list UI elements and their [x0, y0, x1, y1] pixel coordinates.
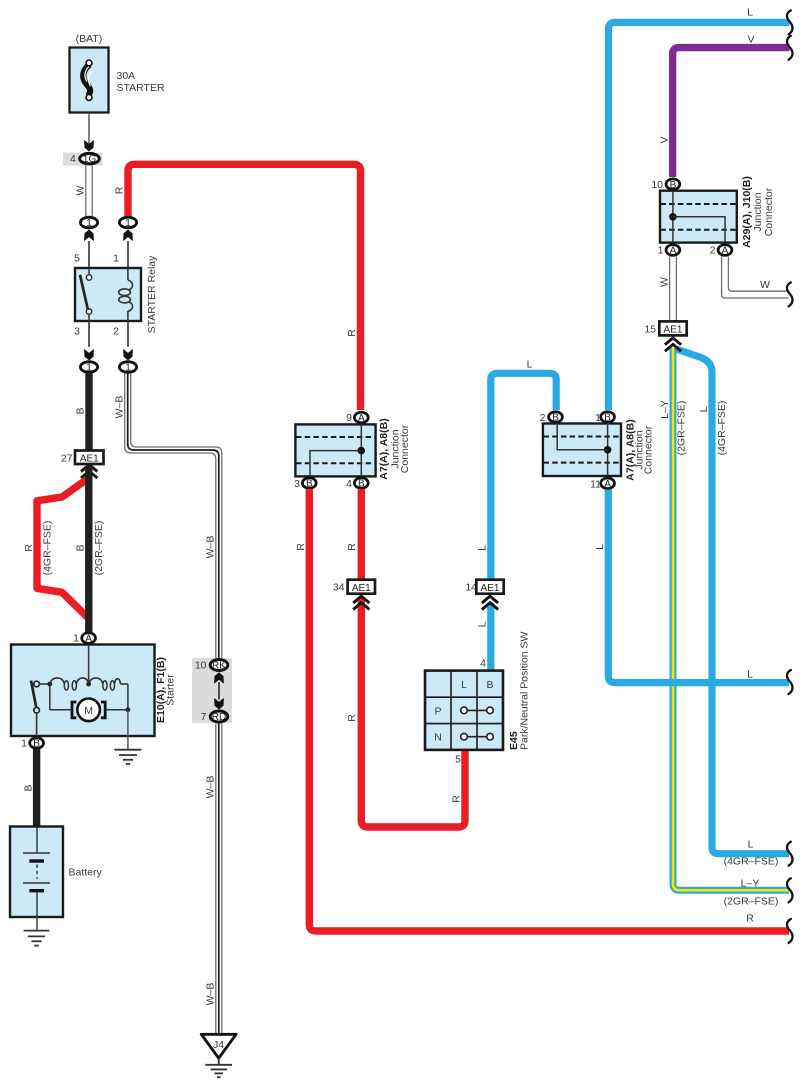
svg-text:2: 2 [540, 412, 546, 424]
starter E10(A), F1(B) [11, 645, 177, 739]
wire R (4GR-FSE) bypass [23, 478, 89, 619]
svg-text:B: B [552, 413, 559, 424]
wire W connector 1G to relay pin 5 [75, 166, 93, 217]
ground J4 [201, 1034, 236, 1077]
wire W junction 1A to AE1 15 [659, 257, 677, 322]
svg-text:AE1: AE1 [80, 454, 99, 465]
node 1 B (starter) [21, 738, 43, 750]
ground (battery) [24, 931, 50, 946]
svg-text:AE1: AE1 [481, 583, 500, 594]
svg-text:L: L [477, 545, 489, 551]
svg-text:Connector: Connector [763, 187, 775, 236]
svg-text:Connector: Connector [399, 424, 411, 473]
svg-text:(4GR–FSE): (4GR–FSE) [724, 856, 779, 868]
svg-text:A: A [722, 246, 729, 257]
wire B starter to battery [22, 749, 36, 827]
continuation squiggle L mid [787, 670, 793, 694]
battery [10, 827, 103, 931]
junction connector A7(A), A8(B) left [294, 412, 411, 490]
svg-text:R: R [346, 329, 358, 337]
svg-text:N: N [434, 732, 442, 744]
svg-text:L–Y: L–Y [741, 878, 760, 890]
svg-text:10: 10 [195, 660, 207, 672]
switch E45 Park/Neutral Position SW [425, 631, 531, 765]
svg-text:B: B [604, 413, 611, 424]
svg-text:R: R [346, 543, 358, 551]
svg-text:(2GR–FSE): (2GR–FSE) [93, 521, 105, 576]
svg-text:STARTER: STARTER [117, 82, 165, 94]
connector RK/RD [192, 658, 232, 723]
wire L AE1 14 up to junction A7 right pin 2B [477, 359, 557, 581]
svg-text:B: B [306, 479, 313, 490]
svg-text:V: V [747, 34, 754, 46]
svg-text:W–B: W–B [114, 396, 126, 419]
svg-text:W–B: W–B [204, 983, 216, 1006]
svg-text:9: 9 [346, 412, 352, 424]
ground (starter) [114, 710, 141, 764]
svg-text:J4: J4 [213, 1039, 224, 1051]
svg-text:L: L [698, 406, 710, 412]
svg-text:AE1: AE1 [664, 325, 683, 336]
wire W junction 2A to right edge [722, 257, 789, 299]
svg-text:10: 10 [651, 179, 663, 191]
relay STARTER Relay [75, 255, 158, 334]
svg-text:B: B [75, 407, 87, 414]
svg-text:AE1: AE1 [352, 583, 371, 594]
svg-text:7: 7 [201, 711, 207, 723]
svg-text:3: 3 [74, 326, 80, 338]
svg-text:L–Y: L–Y [659, 400, 671, 419]
svg-text:W: W [75, 185, 87, 195]
svg-text:B: B [358, 479, 365, 490]
wire L-Y (2GR-FSE) [659, 348, 789, 908]
svg-text:Park/Neutral Position SW: Park/Neutral Position SW [519, 631, 531, 750]
svg-text:B: B [33, 739, 40, 750]
svg-text:W: W [659, 277, 671, 287]
svg-text:V: V [658, 136, 670, 143]
wire relay pin 2 [113, 321, 133, 361]
svg-text:L: L [527, 359, 533, 371]
svg-text:(4GR–FSE): (4GR–FSE) [716, 401, 728, 456]
wire R AE1 34 to E45 pin 5 [346, 598, 465, 827]
wire L junction pin 11A to right edge [608, 490, 789, 683]
node 1 (relay pin 5 top) [74, 217, 97, 268]
wire L (4GR-FSE) [675, 349, 790, 868]
node 1 (below relay pin 3) [80, 362, 97, 374]
svg-text:A7(A), A8(B): A7(A), A8(B) [378, 418, 390, 479]
connector AE1 27 [61, 451, 104, 479]
svg-text:L: L [461, 679, 467, 691]
junction connector A29(A), J10(B) [651, 176, 775, 257]
wire fuse to connector 1G [84, 113, 94, 152]
wire W-B RD to ground J4 [204, 724, 222, 1035]
svg-text:1: 1 [86, 363, 92, 374]
svg-text:1: 1 [125, 363, 131, 374]
wire R relay pin1 to junction A7 pin 9 [114, 164, 361, 410]
connector AE1 34 [333, 580, 375, 610]
continuation squiggle L top [787, 10, 793, 34]
svg-text:2: 2 [710, 245, 716, 257]
svg-text:1: 1 [658, 245, 664, 257]
svg-text:(2GR–FSE): (2GR–FSE) [676, 401, 688, 456]
wire B relay pin 3 to AE1 27 [75, 373, 89, 451]
svg-text:R: R [451, 795, 463, 803]
connector AE1 15 [644, 321, 686, 351]
connector AE1 14 [465, 580, 503, 610]
svg-text:(4GR–FSE): (4GR–FSE) [41, 521, 53, 576]
wire W-B relay pin 2 to RK [114, 373, 222, 658]
svg-text:4: 4 [480, 658, 486, 670]
node 1 A (starter) [73, 633, 95, 645]
svg-text:5: 5 [455, 754, 461, 766]
continuation squiggle V [787, 36, 793, 60]
wire R junction pin 4B to AE1 34 [346, 489, 361, 580]
wire L main (top right to junction pin 1B) [594, 7, 790, 550]
svg-text:L: L [747, 7, 753, 19]
wire relay pin 3 [74, 321, 94, 361]
svg-text:R: R [23, 544, 35, 552]
svg-text:L: L [747, 669, 753, 681]
svg-text:30A: 30A [117, 70, 136, 82]
svg-text:34: 34 [333, 582, 345, 594]
svg-text:2: 2 [113, 326, 119, 338]
svg-text:A: A [670, 246, 677, 257]
continuation squiggle W [787, 282, 793, 306]
svg-text:L: L [594, 544, 606, 550]
svg-text:B: B [22, 784, 34, 791]
svg-text:1: 1 [125, 218, 131, 229]
svg-text:W: W [760, 279, 770, 291]
svg-text:5: 5 [74, 253, 80, 265]
svg-text:M: M [84, 705, 93, 717]
continuation squiggle L (4GR-FSE) [787, 842, 793, 866]
svg-text:R: R [746, 913, 754, 925]
junction connector A7(A), A8(B) right [540, 412, 655, 491]
svg-text:W–B: W–B [204, 536, 216, 559]
svg-text:1: 1 [86, 218, 92, 229]
svg-text:W–B: W–B [204, 776, 216, 799]
svg-text:B: B [75, 544, 87, 551]
svg-text:L: L [748, 839, 754, 851]
svg-text:R: R [114, 186, 126, 194]
svg-text:4: 4 [70, 153, 76, 165]
svg-text:P: P [434, 705, 441, 717]
svg-text:R: R [295, 543, 307, 551]
node 1 (relay pin 1 top) [113, 217, 136, 268]
svg-text:Connector: Connector [643, 425, 655, 474]
svg-text:(BAT): (BAT) [76, 33, 103, 45]
svg-text:1: 1 [73, 633, 79, 645]
wire V (purple) [658, 34, 789, 178]
svg-text:RK: RK [212, 660, 226, 671]
svg-text:A: A [85, 634, 92, 645]
svg-text:Starter: Starter [165, 674, 177, 706]
svg-text:L: L [477, 621, 489, 627]
wire R junction pin 3B to bottom edge [295, 489, 789, 931]
svg-text:A: A [604, 479, 611, 490]
svg-text:Battery: Battery [69, 867, 103, 879]
svg-text:B: B [486, 679, 493, 691]
svg-text:A: A [358, 413, 365, 424]
continuation squiggle L-Y [787, 878, 793, 902]
svg-text:STARTER Relay: STARTER Relay [146, 255, 158, 334]
svg-text:B: B [670, 180, 677, 191]
wire B (2GR-FSE) AE1 27 to starter pin A [75, 466, 105, 633]
svg-text:R: R [346, 714, 358, 722]
node 1 (below relay pin 2) [119, 362, 136, 374]
svg-text:1G: 1G [83, 154, 97, 165]
svg-text:1: 1 [113, 253, 119, 265]
wire L E45 pin 4 to AE1 14 (up) [477, 603, 491, 670]
connector 4 1G [63, 153, 103, 166]
svg-text:15: 15 [644, 324, 656, 336]
svg-text:27: 27 [61, 453, 73, 465]
svg-text:RD: RD [212, 712, 226, 723]
svg-text:1: 1 [21, 738, 27, 750]
svg-text:3: 3 [294, 478, 300, 490]
continuation squiggle R [787, 919, 793, 943]
fuse 30A STARTER (BAT) [70, 33, 165, 113]
svg-text:(2GR–FSE): (2GR–FSE) [724, 896, 779, 908]
svg-text:4: 4 [346, 478, 352, 490]
